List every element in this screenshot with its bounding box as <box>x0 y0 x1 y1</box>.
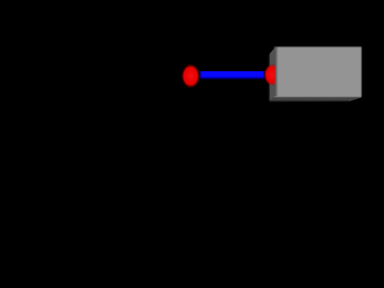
rod right end dark junction <box>263 70 265 81</box>
box right edge soft ramp <box>361 45 364 98</box>
box top edge soft ramp <box>274 45 363 48</box>
right red joint sphere <box>263 63 281 86</box>
box left outer edge soft ramp <box>269 54 270 103</box>
box bottom face <box>269 96 362 102</box>
box left side face <box>269 47 276 101</box>
rod left end dark junction <box>199 70 202 81</box>
front-bottom edge ramp to dark band <box>274 96 362 97</box>
box front face <box>275 46 363 97</box>
bottom face fade to black <box>269 100 350 102</box>
blue link rod <box>200 71 265 81</box>
front face left edge ramp <box>274 46 278 96</box>
left red joint sphere <box>181 63 201 89</box>
